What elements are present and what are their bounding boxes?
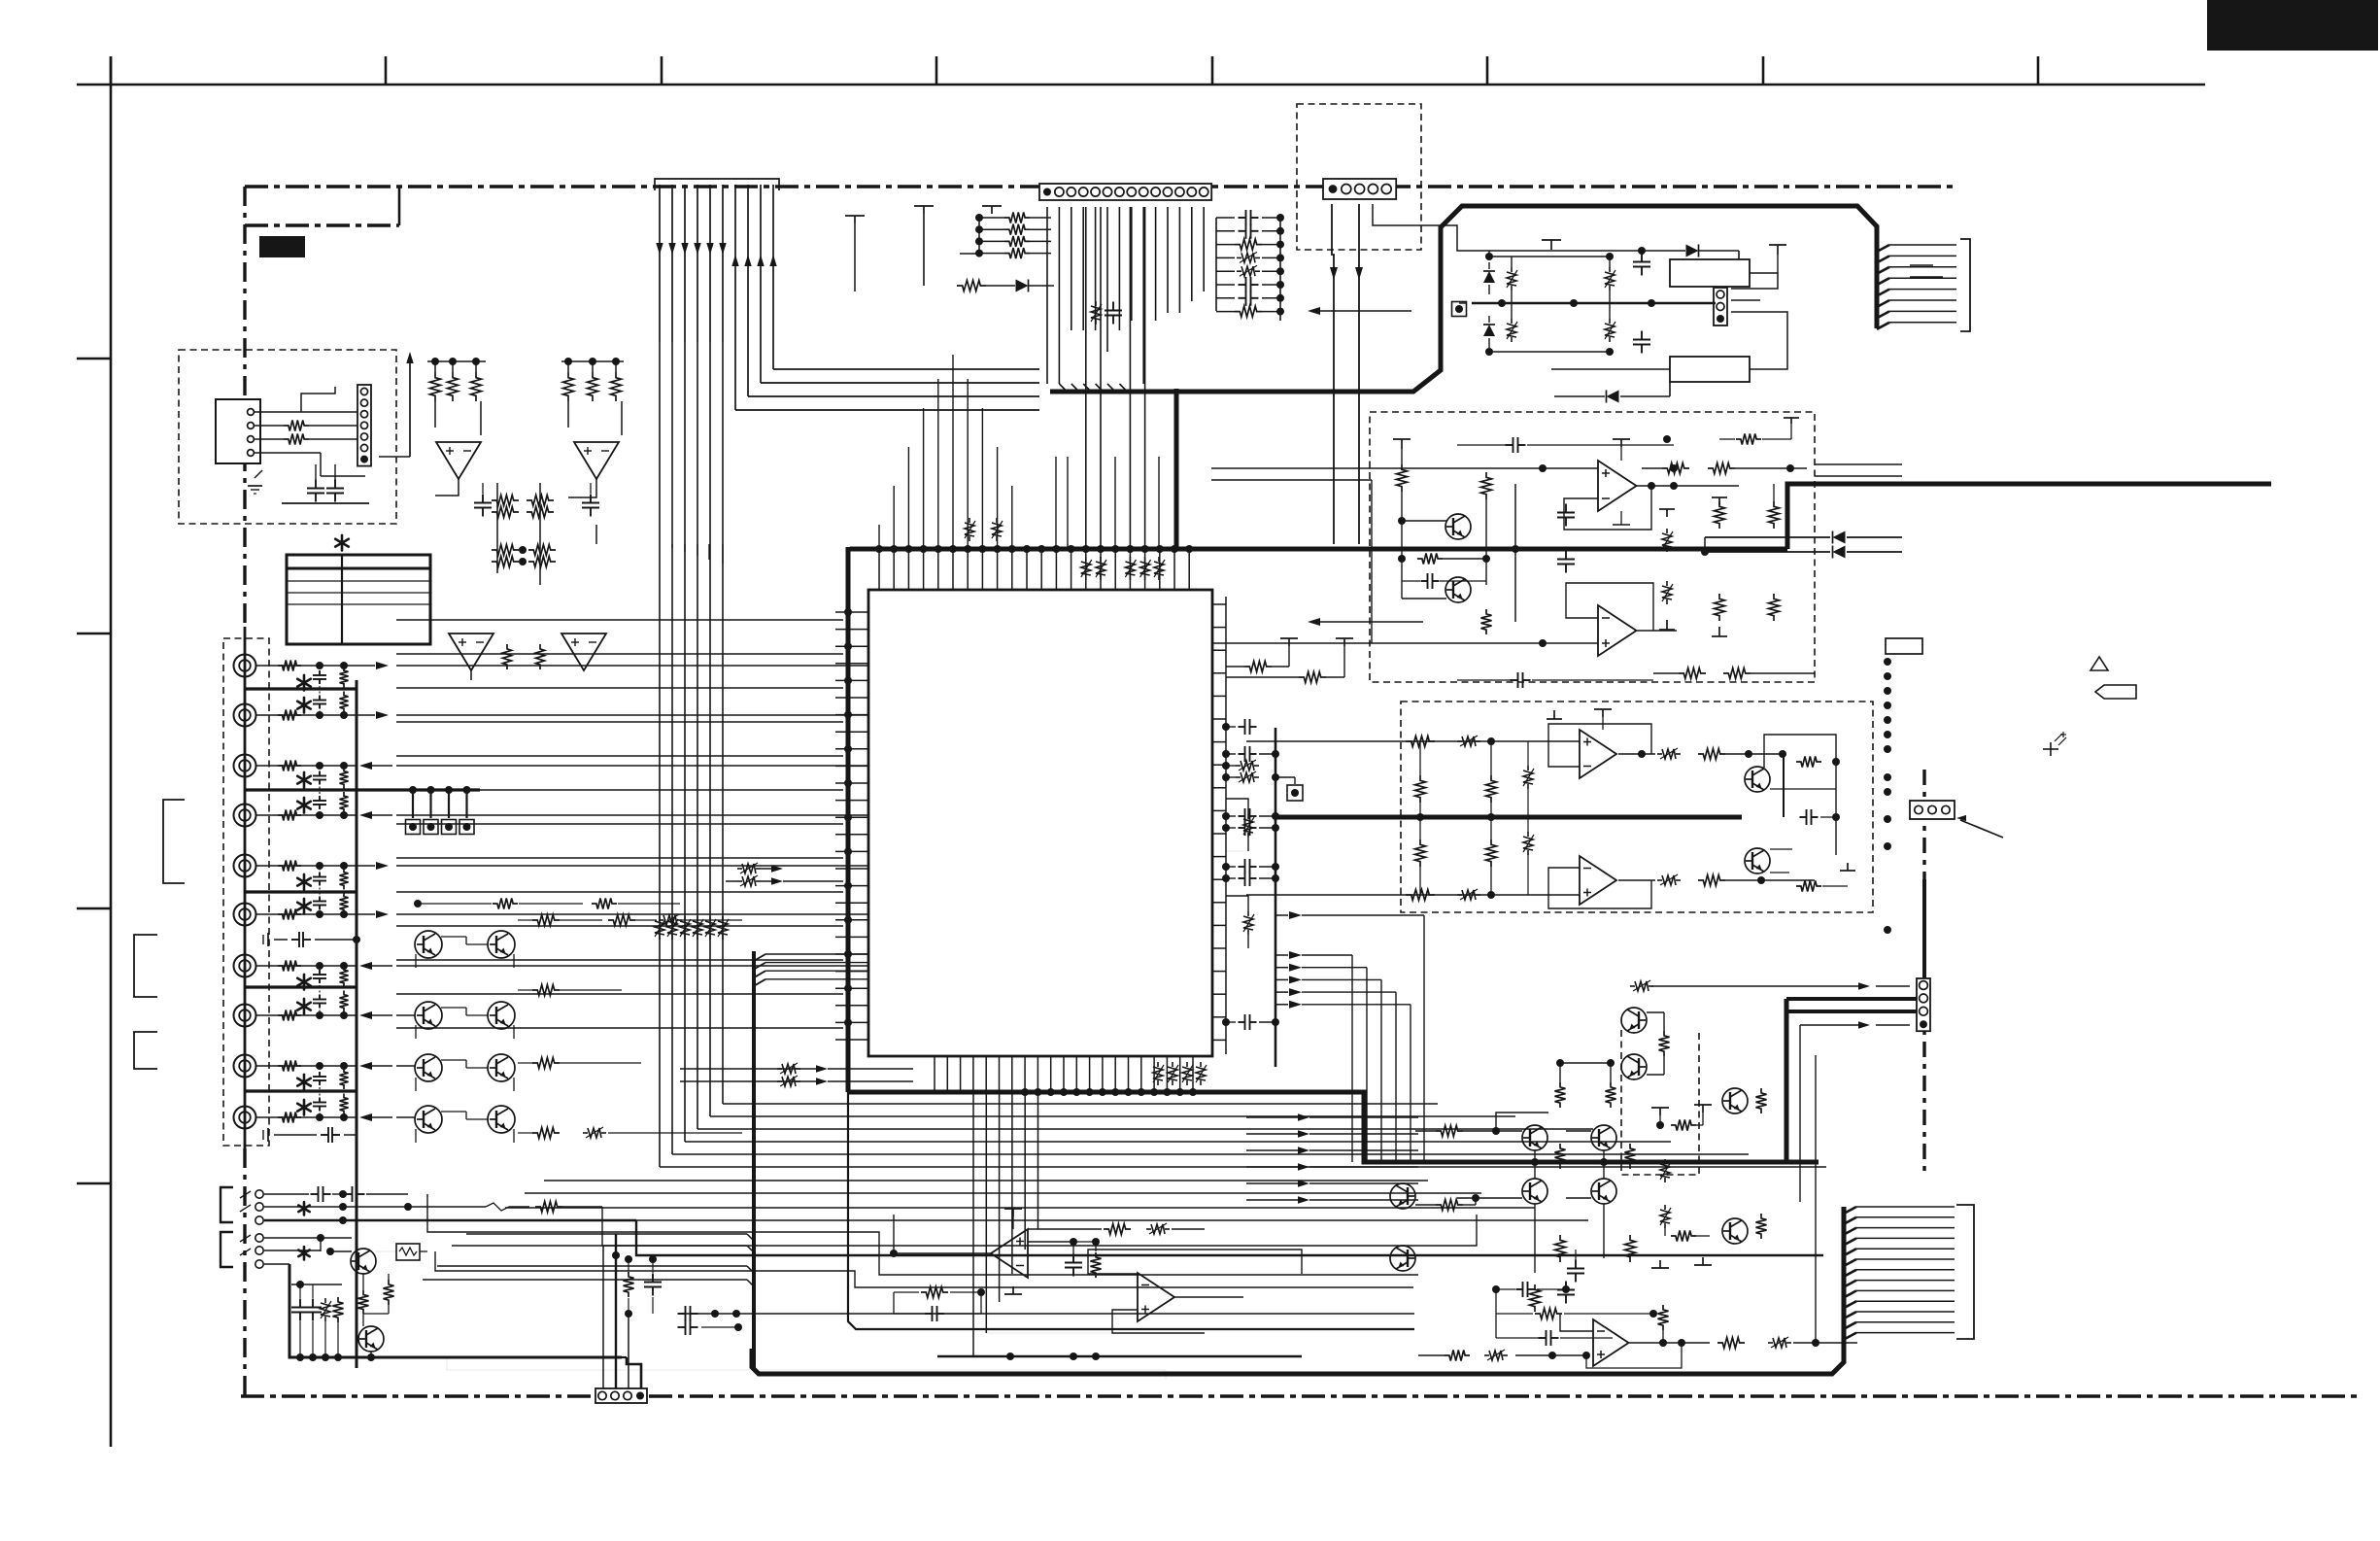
wire blockA pin4 <box>255 452 321 454</box>
boxres pair above IC <box>969 518 970 523</box>
wire right verticals <box>1815 1055 1817 1343</box>
cap bridge 2 <box>1641 331 1643 340</box>
wire U2A feed <box>434 401 436 428</box>
diode pair line 2 <box>1705 551 1830 553</box>
relay RY1 contact box <box>1670 357 1750 382</box>
wire U5A fb <box>1548 724 1651 767</box>
jack shield bold link 4 <box>245 985 357 988</box>
res grid right 1 <box>532 915 560 926</box>
left bundle rail <box>752 951 756 1369</box>
component column right of CN101 (caps+res) <box>1239 217 1246 219</box>
resistor U8 out <box>1717 1338 1745 1349</box>
wire ribbon fan (top right) <box>1877 245 1889 252</box>
wire QQ rail top <box>1559 1063 1561 1082</box>
star PJ1 <box>303 1202 306 1209</box>
wire U2 top rail A <box>427 360 486 362</box>
heavy bus step up <box>1787 484 2271 549</box>
wire U3 out left <box>470 670 472 680</box>
resistor RQ mid2 <box>1671 1231 1696 1242</box>
relay box in block A <box>216 399 260 463</box>
wire CN103 pins <box>602 1246 604 1388</box>
wire CN102 pin1 drop <box>1332 204 1334 544</box>
op-amp U8 <box>1593 1319 1629 1366</box>
wire Q18 link <box>1647 1011 1664 1013</box>
wire relay2 to CN106 <box>1731 312 1787 369</box>
gnd T U4A <box>1620 511 1622 525</box>
power T tap 2 <box>982 205 1002 207</box>
wire D-out1 right <box>1725 753 1783 755</box>
note table row rule 2 <box>287 592 430 594</box>
resistor C-in1 <box>1397 464 1408 492</box>
resistor route mid <box>624 1272 634 1297</box>
relay RY1 coil box <box>1670 259 1750 287</box>
jack lines to IC <box>396 665 867 667</box>
wire D in1 <box>1246 740 1580 742</box>
resistor U4A out2 <box>1708 463 1735 474</box>
wire D thick out <box>1783 754 1785 817</box>
page frame left ruler line <box>110 56 113 1447</box>
wire PJ1 sleeve <box>264 1219 636 1222</box>
wire U7 out <box>1174 1296 1243 1298</box>
wire mid vertical 2 <box>539 483 541 585</box>
transistor grid base links <box>441 936 466 938</box>
power T tap 0 <box>845 215 865 217</box>
wire comp column rail <box>1279 214 1281 321</box>
boxres BR2 <box>1511 319 1513 324</box>
blockA ground symbol <box>248 485 262 487</box>
wire U2 cross link <box>435 479 459 496</box>
wire Q3 collector <box>1764 735 1836 768</box>
opamp U5B <box>1580 856 1616 905</box>
cap Q34 <box>1800 816 1807 818</box>
wire route t5 <box>435 1251 1413 1287</box>
cap PJ1 b <box>345 1193 353 1195</box>
wire D-out2 right <box>1725 879 1815 881</box>
resistor RQ col1 <box>1555 1082 1566 1108</box>
resistor C right2 <box>1769 501 1780 529</box>
IC left pin stubs <box>835 611 868 613</box>
boxres elbow 2 <box>1226 896 1248 911</box>
star PJ2 <box>303 1247 306 1253</box>
connector CN104 (4-pin right, vertical) <box>1917 978 1930 1031</box>
op-amp U3B <box>561 634 606 670</box>
headphone PJ2 contacts <box>255 1234 263 1242</box>
transistor Q16 (top right) <box>1722 1088 1748 1113</box>
wire fan-left link 1 <box>595 525 597 544</box>
diode D-bridge-top <box>1686 245 1699 257</box>
wire PJ2 mid <box>264 1250 321 1251</box>
wire bridge top rail <box>1551 250 1685 252</box>
op-amp U3A <box>449 634 493 670</box>
page number block (top right) <box>2207 0 2378 51</box>
heavy bus right drop <box>1785 999 1789 1162</box>
power T C1 <box>1393 438 1411 440</box>
frame tick L1 <box>77 358 111 360</box>
cap QQ row3 <box>1539 1337 1547 1339</box>
headphone jack PJ2 frame <box>221 1232 233 1267</box>
wire U4 out right <box>1642 467 1662 469</box>
connector CN107 (7-pin in block A) <box>357 385 371 466</box>
diode pair line 1 <box>1705 536 1830 538</box>
wire fan down continuation <box>659 342 661 1167</box>
wire Q29 down <box>370 1352 372 1357</box>
wire CN102 pin4 route <box>1373 204 1551 251</box>
frame tick T6 <box>1486 56 1489 85</box>
wire Q28 net <box>321 1237 352 1239</box>
wire CN102 pin2 drop <box>1358 204 1360 544</box>
wire relay to CN106 <box>1731 273 1778 289</box>
transistor Q10 <box>1522 1125 1547 1150</box>
dotted leader column <box>1884 658 1891 666</box>
transistor Q18 <box>1621 1008 1647 1033</box>
connector CN106 (3-pin mid, vertical) <box>1714 288 1727 325</box>
wire route t4 <box>427 1194 1418 1275</box>
wire route T2 <box>622 1356 627 1358</box>
boxres D-in1 <box>1457 740 1462 742</box>
resistor grid above U2 (6x) <box>430 372 441 401</box>
wire U4B out <box>1636 630 1677 632</box>
boxres BR4 <box>1609 319 1611 324</box>
wire bridge col links <box>1489 256 1610 257</box>
transistor Q4 <box>1745 848 1770 873</box>
cap bridge 1 <box>1641 254 1643 262</box>
boxres QQ1 <box>1664 1159 1666 1164</box>
wire U8 out <box>1629 1342 1710 1344</box>
wire U4A -in fb <box>1564 486 1651 530</box>
boxres U8 out <box>1768 1342 1773 1344</box>
resistor D mid2 <box>1415 839 1426 867</box>
resistor QQ row2 <box>1535 1309 1562 1319</box>
cap U4B bot fb <box>1511 679 1518 681</box>
wire U2B cross link <box>568 479 596 497</box>
arrow staircase 2 <box>777 1080 782 1082</box>
boxres PJ col <box>324 1298 326 1303</box>
RCA input jacks J1-J10 <box>234 655 256 677</box>
wire tap1 stem <box>923 214 925 286</box>
wire U8 out right <box>1793 1342 1857 1344</box>
resistor D mid3 <box>1486 775 1497 803</box>
resistor C right3 <box>1715 594 1725 621</box>
heavy bus mid horizontal <box>1275 815 1742 820</box>
wire U4A out <box>1636 485 1739 487</box>
cap QQ row <box>1516 1288 1523 1290</box>
gnd T C right <box>1666 620 1668 630</box>
board outline right edge segment <box>1922 770 1925 1176</box>
triangle symbol <box>2091 657 2108 670</box>
frame tick L3 <box>77 907 111 910</box>
jack shield bold link 2 <box>245 788 480 791</box>
cap route pair <box>678 1313 686 1315</box>
mid rail continuation <box>848 1092 1414 1329</box>
boxres D-out1 <box>1657 753 1662 755</box>
wire U4A +in <box>1211 467 1598 469</box>
wire Q34 right rail <box>1835 750 1837 855</box>
frame tick T4 <box>935 56 938 85</box>
resistor U3A fb <box>503 644 512 669</box>
resistor under Q12 <box>1530 1284 1541 1312</box>
resistor rows R-mid2 <box>492 545 519 556</box>
jack shield bold link 5 <box>245 1089 357 1092</box>
wire PJ1 top <box>264 1193 309 1195</box>
wire D in2 <box>1246 894 1580 896</box>
board outline bottom edge <box>241 1394 2361 1397</box>
res grid right 3 <box>608 915 635 926</box>
transistor Q29 <box>358 1326 384 1352</box>
wire CN101 merge bends <box>1059 384 1067 392</box>
wire U2 top rail B <box>561 360 624 362</box>
transistor Q2 <box>1445 577 1471 602</box>
wire route t7 <box>680 1132 742 1134</box>
boxres C col <box>1666 529 1668 533</box>
IC bottom pin stubs <box>934 1056 935 1092</box>
resistor R-tap <box>957 281 986 291</box>
jack series resistors <box>256 665 320 667</box>
wire U4B -in fb <box>1566 583 1653 631</box>
jack ground bus (left) <box>244 627 247 1148</box>
boxed resistor RP1 <box>396 1244 420 1260</box>
cap PJ col2 <box>312 1299 314 1308</box>
jack group divider cap 1 <box>291 939 299 941</box>
pointer pentagon symbol <box>2095 685 2136 699</box>
resistor ICR 1 <box>1244 662 1272 672</box>
heavy bus left drop <box>846 547 851 1092</box>
resistor U6 fb <box>921 1287 948 1298</box>
wire U7 box <box>1088 1250 1302 1274</box>
note table divider <box>341 555 343 644</box>
wire U6 out net <box>1028 1241 1073 1243</box>
resistor fb U8 <box>1658 1305 1669 1330</box>
jack signal arrows <box>357 665 375 667</box>
resistor PJ1 <box>535 1202 562 1213</box>
wire ribbon fan (bottom right) <box>1844 1207 1856 1214</box>
power T C right <box>1659 508 1675 510</box>
jack shield vertical bus <box>356 680 358 1368</box>
gnd T QQ <box>1659 1260 1661 1268</box>
IC bottom pin drops to afb <box>972 1092 974 1356</box>
board outline top edge <box>245 185 1955 188</box>
op-amp U2B <box>574 442 619 479</box>
frame tick T1 <box>110 56 113 85</box>
group bracket 2 <box>134 935 157 997</box>
wire U5B fb <box>1548 868 1651 908</box>
resistor D-out2 <box>1698 875 1725 886</box>
dashed block C (rec out amp) <box>1370 412 1815 682</box>
power T tap 1 <box>914 205 934 207</box>
boxres QQ2 <box>1664 1205 1666 1210</box>
diode D-br2 <box>1483 325 1495 336</box>
transistor Q14 (left) <box>1390 1183 1415 1209</box>
arrow into IC right mid <box>1313 621 1423 623</box>
frame tick T3 <box>661 56 663 85</box>
dashed block jacks (input jack group) <box>223 638 269 1146</box>
wire out rails right <box>1815 463 1902 465</box>
note table header rule <box>287 567 430 570</box>
transistor Q13 <box>1591 1179 1616 1204</box>
wire CN104 line1 <box>1651 985 1858 987</box>
heavy bus bottom edge <box>752 1207 1844 1374</box>
headphone jack PJ1 frame <box>221 1187 233 1222</box>
resistor Q29 b <box>358 1290 369 1314</box>
resistor D mid1 <box>1415 775 1426 803</box>
wire bundle merging into rail <box>466 1233 747 1235</box>
resistor C right4 <box>1769 594 1780 621</box>
heavy bus to CN pin3 <box>1787 1010 1917 1013</box>
boxres-arrow pair jack5 <box>737 868 742 870</box>
resistor group RA (4x pull) <box>1004 213 1030 223</box>
arrow group aux outputs <box>1246 1116 1298 1118</box>
note table row rule 1 <box>287 580 430 582</box>
blockA arrow up <box>409 358 411 457</box>
cap route mid <box>652 1274 654 1283</box>
arrow CN102-2 <box>1355 267 1363 280</box>
connector CN103 (4-pin bottom) <box>595 1388 647 1403</box>
transistor grid Q20-Q27 <box>415 931 442 958</box>
res grid right 5 <box>532 1128 560 1139</box>
boxres row under bus <box>1085 557 1087 562</box>
op-amp U6 (left facing) <box>991 1229 1028 1278</box>
connector CN105 (3-pin right) <box>1910 801 1955 819</box>
op-amp U2A <box>436 442 481 479</box>
wire blockA pin3 <box>284 434 309 445</box>
res grid right 4 <box>532 1058 560 1069</box>
wire CN104 top stub <box>1922 879 1926 978</box>
wire U5B out <box>1618 879 1655 881</box>
resistor D-in1 <box>1406 736 1435 747</box>
small rect label <box>1886 638 1922 654</box>
boxres inline pin5 <box>1095 301 1097 306</box>
res grid right 2 <box>532 985 560 996</box>
wire fan bundle (10 signal lines) <box>659 185 661 342</box>
wire RA left drop <box>978 218 980 254</box>
wire route t3 <box>602 1207 1477 1246</box>
board outline notch bottom <box>245 223 399 226</box>
jack shield bold link 3 <box>245 890 357 893</box>
jack shield bold link 1 <box>245 687 357 690</box>
jack filter caps+resistors <box>319 670 321 675</box>
resistor D mid4 <box>1486 839 1497 867</box>
resistor RQ col2 <box>1606 1082 1616 1108</box>
group bracket 1 <box>163 800 185 883</box>
board outline notch right <box>398 187 401 225</box>
ribbon bracket (top right) <box>1960 239 1970 331</box>
wire bridge mid rail <box>1472 302 1716 304</box>
dashed block E (bias unit) <box>1621 1030 1699 1175</box>
opamp U4B <box>1598 605 1637 656</box>
wire Q12 base <box>1457 1197 1522 1199</box>
frame tick L2 <box>77 633 111 635</box>
cap under Q13 <box>1575 1260 1577 1269</box>
wire blockA pin1 <box>255 411 357 413</box>
heavy bus IC-bottom rail <box>848 1092 1819 1162</box>
arrow staircase 1 <box>777 1068 782 1070</box>
frame tick T7 <box>1762 56 1765 85</box>
power T ICR 1 <box>1280 637 1298 639</box>
power T U4A <box>1613 438 1630 440</box>
boxres BR3 <box>1609 267 1611 272</box>
resistor U6 r2 <box>1104 1224 1131 1235</box>
cap inline pin6 <box>1112 302 1114 311</box>
group bracket 3 <box>134 1032 157 1069</box>
wire QC bases <box>1402 520 1446 522</box>
IC U1 (DSP main IC) <box>868 590 1212 1056</box>
wire bus under CN101 <box>1046 207 1048 384</box>
resistor C right1 <box>1715 501 1725 529</box>
arrow group DAC outputs <box>1275 914 1288 916</box>
power T right <box>1769 244 1786 246</box>
resistor rows R-mid1 <box>492 496 519 506</box>
boxres D-out2 <box>1657 879 1662 881</box>
cap U8 in <box>1565 1282 1567 1290</box>
wire PJ2 top <box>264 1237 321 1239</box>
wire Q14 net <box>1436 1126 1463 1137</box>
boxres elbow 1 <box>1226 799 1248 814</box>
headphone PJ1 contacts <box>255 1190 263 1198</box>
wire U4B +in <box>1211 642 1598 644</box>
wire bridge bottom rail <box>1551 368 1670 370</box>
resistor Q34 link <box>1796 757 1821 768</box>
ribbon label dash 1 <box>1910 264 1933 266</box>
note table asterisk <box>341 535 344 543</box>
gnd T U6 <box>1012 1286 1014 1294</box>
transistor Q17 (right) <box>1722 1218 1748 1244</box>
resistor D-in2 <box>1406 890 1435 901</box>
heavy bus top-right run <box>1050 206 1877 392</box>
heavy bus above IC <box>850 547 1787 552</box>
jack group divider cap 2 <box>321 1134 328 1136</box>
IC right pin stubs <box>1212 603 1226 605</box>
heavy bus to CN pin2 <box>1786 997 1917 1001</box>
ribbon label dash 2 <box>1910 276 1943 278</box>
resistor PJ col <box>333 1297 344 1322</box>
resistor C-fb <box>1417 554 1443 565</box>
note table row rule 3 <box>287 603 430 605</box>
op-amp U7 (right facing) <box>1138 1273 1174 1321</box>
cap U4A top fb <box>1506 444 1513 446</box>
opamp U4A <box>1598 461 1637 511</box>
resistor C-e2 <box>1481 609 1492 634</box>
wire U8 +in <box>1515 1354 1586 1356</box>
blockA bottom bus <box>282 502 369 504</box>
resistor U6 out <box>1091 1252 1102 1278</box>
polarized cap symbol <box>2043 748 2058 750</box>
resistor Q28 e <box>384 1280 394 1305</box>
wire U7 +in <box>1112 1310 1205 1333</box>
arrow into IC right top <box>1313 310 1411 312</box>
IC right collector rail <box>1225 597 1227 1054</box>
connector CN101 (14-pin) <box>1039 184 1211 200</box>
wire PJ1 mid <box>264 1206 486 1208</box>
cap mid 2 <box>590 495 592 503</box>
wire bundle crossing (4 routes) <box>544 1180 1428 1181</box>
blockA cap 2 <box>334 480 336 489</box>
pad bridge <box>1452 302 1467 317</box>
transistor Q15 (left) <box>1390 1246 1415 1271</box>
blockA cap 1 <box>315 480 317 489</box>
transistor Q12 <box>1522 1179 1547 1204</box>
wire comp column feed <box>1215 218 1217 311</box>
diode D-bridge-bot <box>1607 391 1619 403</box>
resistor Q18 r <box>1659 1031 1670 1056</box>
wire blockA pin2 <box>284 421 309 431</box>
cap PJ col1 <box>299 1299 301 1308</box>
frame tick T8 <box>2037 56 2040 85</box>
wire route low <box>680 1313 1414 1315</box>
resistor U4B out1 <box>1679 668 1706 679</box>
wire fan tails <box>659 543 661 545</box>
thick L bus PJ <box>289 1264 622 1357</box>
connector CN105 pointer arrow <box>1960 820 2003 838</box>
transistor Q28 <box>351 1249 376 1274</box>
